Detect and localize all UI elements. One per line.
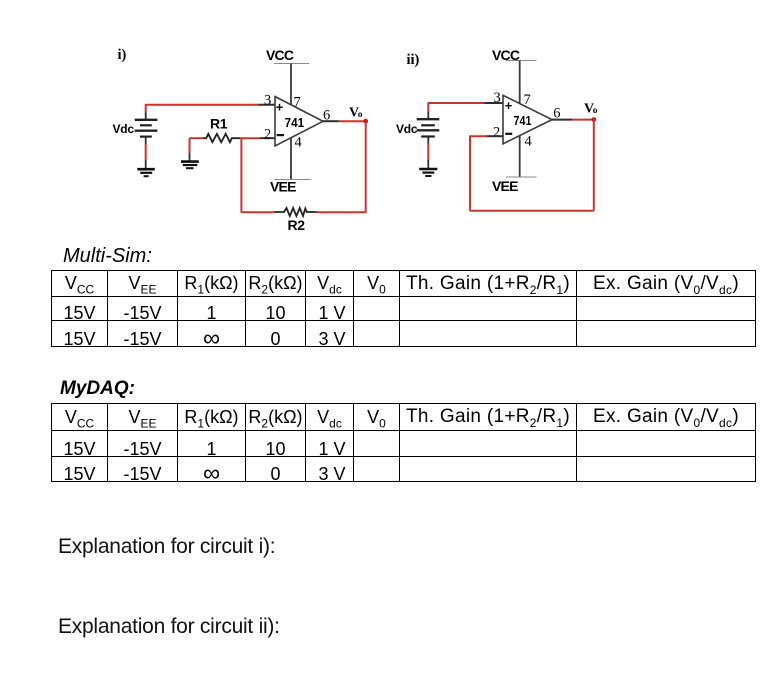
svg-text:VEE: VEE <box>492 178 518 194</box>
battery Vdc (circuit ii) <box>417 119 440 168</box>
wire feedback bottom right (circuit i) <box>316 211 366 213</box>
svg-text:7: 7 <box>524 92 531 108</box>
svg-text:2: 2 <box>264 126 271 142</box>
wire pin6 output (circuit i) <box>323 120 366 122</box>
svg-text:3: 3 <box>494 90 501 106</box>
ground (battery, circuit ii) <box>419 169 437 176</box>
wire pin6 output (circuit ii) <box>552 119 594 121</box>
heading Multi-Sim <box>63 245 152 268</box>
ground (R1, circuit i) <box>181 138 199 168</box>
wire feedback left riser (circuit i) <box>240 138 242 213</box>
op-amp U2 741 (circuit ii) <box>503 95 552 144</box>
svg-text:o: o <box>358 110 363 120</box>
node Vo (circuit i) <box>363 119 368 124</box>
svg-text:741: 741 <box>514 113 532 128</box>
VCC power symbol (circuit ii) <box>492 47 537 104</box>
label Vo (circuit ii) <box>584 102 598 117</box>
VCC power symbol (circuit i) <box>266 47 309 105</box>
wire R1 to pin2 with feedback junction (circuit i) <box>240 137 275 139</box>
svg-text:R2: R2 <box>288 217 306 233</box>
svg-text:R1: R1 <box>210 116 228 132</box>
svg-text:3: 3 <box>264 92 271 108</box>
svg-text:ii): ii) <box>407 52 420 68</box>
wire feedback bottom (circuit ii) <box>470 210 594 212</box>
VEE power symbol (circuit i) <box>270 138 311 195</box>
resistor R2 <box>274 208 317 216</box>
svg-text:i): i) <box>118 47 127 63</box>
explanation line i <box>58 535 275 559</box>
svg-text:VCC: VCC <box>266 47 294 63</box>
svg-text:VEE: VEE <box>270 179 296 195</box>
svg-text:+: + <box>505 98 513 113</box>
heading MyDAQ <box>60 378 135 400</box>
svg-text:2: 2 <box>493 124 500 140</box>
resistor R1 <box>190 134 241 142</box>
op-amp U1 741 (circuit i) <box>275 97 323 147</box>
wire riser to pin2 (circuit ii) <box>469 135 503 137</box>
label Vo (circuit i) <box>349 106 363 121</box>
explanation line ii <box>58 615 280 639</box>
svg-text:+: + <box>276 100 284 115</box>
wire feedback right side (circuit i) <box>365 121 367 213</box>
svg-text:4: 4 <box>295 135 303 151</box>
wire feedback right side (circuit ii) <box>593 120 595 211</box>
ground (battery, circuit i) <box>137 169 155 176</box>
battery Vdc (circuit i) <box>135 120 158 169</box>
svg-text:7: 7 <box>294 94 301 110</box>
wire feedback bottom left (circuit i) <box>241 211 274 213</box>
wire feedback left riser (circuit ii) <box>469 136 471 211</box>
svg-text:o: o <box>593 106 598 116</box>
wire battery+ to pin3 (circuit i) <box>146 104 275 120</box>
wire battery+ to pin3 (circuit ii) <box>428 102 503 119</box>
table MyDAQ <box>51 403 756 482</box>
svg-text:Vdc: Vdc <box>396 122 418 136</box>
svg-text:4: 4 <box>525 133 533 149</box>
VEE power symbol (circuit ii) <box>492 136 537 195</box>
node Vo (circuit ii) <box>591 117 596 122</box>
table Multi-Sim <box>51 270 756 347</box>
svg-text:Vdc: Vdc <box>113 122 135 136</box>
svg-text:741: 741 <box>285 115 305 130</box>
